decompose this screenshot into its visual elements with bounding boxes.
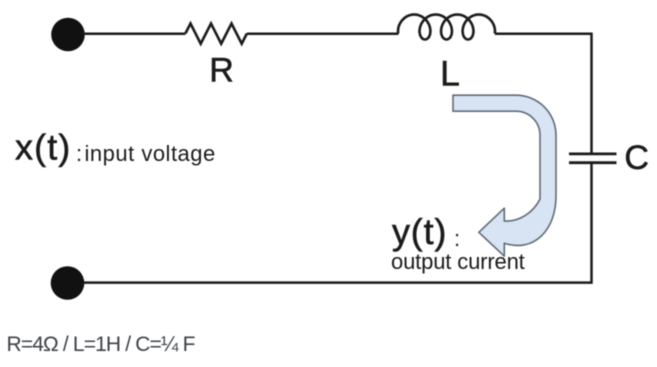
terminal bottom-left bbox=[51, 266, 85, 300]
current direction arrow bbox=[453, 95, 556, 256]
capacitor C bottom plate bbox=[569, 161, 617, 164]
inductor L bbox=[398, 15, 495, 40]
svg-text:y(t): y(t) bbox=[392, 211, 447, 252]
svg-text:L: L bbox=[440, 54, 460, 94]
svg-text::: : bbox=[76, 141, 82, 166]
capacitor C top plate bbox=[569, 152, 617, 155]
wire resistor to inductor bbox=[247, 32, 399, 35]
wire inductor to top-right corner down to capacitor bbox=[495, 34, 592, 153]
svg-text:R: R bbox=[209, 52, 234, 90]
svg-text:x(t): x(t) bbox=[15, 127, 71, 168]
wire top-left to resistor bbox=[83, 32, 185, 35]
svg-text:C: C bbox=[624, 139, 649, 177]
resistor R bbox=[185, 24, 247, 44]
wire capacitor down, bottom wire to terminal bbox=[83, 164, 592, 283]
svg-text:output current: output current bbox=[391, 249, 525, 274]
svg-text:input voltage: input voltage bbox=[85, 141, 216, 166]
svg-text::: : bbox=[454, 226, 460, 251]
svg-text:R=4Ω / L=1H / C=¼ F: R=4Ω / L=1H / C=¼ F bbox=[7, 333, 195, 356]
terminal top-left bbox=[51, 18, 85, 52]
